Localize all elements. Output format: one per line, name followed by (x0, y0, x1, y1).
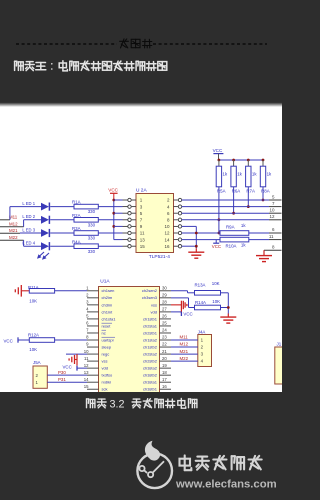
wire R1A to U2A pin 3 (98, 206, 122, 208)
svg-text:R4A: R4A (72, 239, 81, 244)
page-break dashed rule (16, 43, 117, 45)
svg-text:P30: P30 (58, 370, 66, 375)
svg-text:17: 17 (162, 377, 167, 382)
svg-text:J5A: J5A (33, 360, 41, 365)
wire U2A pin 8 to edge (net 12) (182, 219, 269, 221)
svg-text:VCC: VCC (212, 244, 221, 249)
junction VCC col row 1 (112, 199, 115, 202)
wire R11A to pin 1 (55, 290, 87, 292)
svg-text:18: 18 (162, 370, 167, 375)
U1A pin 2 (86, 293, 113, 301)
wire R3A to U2A pin 11 (98, 232, 122, 234)
svg-text:U1A: U1A (100, 278, 110, 284)
svg-text:sleep: sleep (102, 344, 112, 349)
U2A pin 14 (164, 237, 181, 242)
wire U1A pin 23 to J4A-1 (M11) (171, 339, 198, 341)
svg-text:R9A: R9A (226, 224, 235, 229)
wire U2A pin 10 to gnd column (182, 225, 197, 227)
junction R8A line (262, 199, 265, 202)
connector J4A (198, 329, 212, 366)
wire LED2 to R2A (50, 219, 74, 221)
svg-text:R10A: R10A (226, 244, 237, 249)
LED L ED 3 (22, 227, 49, 237)
svg-text:M12: M12 (180, 342, 189, 347)
caption 附录 3.2 速度检测电路 (86, 399, 88, 408)
U1A pin 5 (86, 314, 116, 322)
U2A pin 2 (167, 198, 182, 203)
U2A pin 3 (128, 204, 143, 209)
svg-text:R2A: R2A (72, 213, 81, 218)
U1A pin 30 (142, 286, 171, 294)
svg-text:10K: 10K (29, 347, 37, 352)
svg-text:21: 21 (162, 349, 167, 354)
svg-text:ch3stb2: ch3stb2 (143, 373, 158, 378)
U1A pin 9 (86, 342, 112, 350)
svg-text:ch3im: ch3im (102, 302, 113, 307)
svg-text:24: 24 (162, 328, 167, 333)
ground (net 8) (256, 250, 272, 261)
svg-text:rxdiki: rxdiki (102, 380, 111, 385)
white schematic sheet (0, 0, 1, 1)
junction R5A line (218, 218, 221, 221)
ground (U1A vss left) (69, 354, 77, 365)
U1A pin 1 (86, 286, 114, 294)
svg-text:15: 15 (140, 244, 146, 249)
U1A pin 7 (86, 328, 106, 336)
ground (U1A vss right) (171, 301, 187, 314)
U1A pin 24 (143, 328, 171, 336)
svg-text:1k: 1k (267, 171, 272, 176)
junction VCC col row 9 (112, 225, 115, 228)
elecfans logo mark (137, 441, 172, 488)
resistor R13A (195, 282, 221, 295)
svg-text:330: 330 (88, 209, 96, 214)
resistor R9A (220, 224, 249, 235)
wire R7A down (247, 187, 249, 207)
svg-text:ch1int: ch1int (102, 309, 114, 314)
svg-text:ch2stb2: ch2stb2 (143, 359, 158, 364)
U1A pin 13 (84, 370, 113, 378)
op-to chip U2A TLP521-4 (136, 194, 174, 253)
svg-text:ch1stb1: ch1stb1 (143, 316, 158, 321)
svg-text:VCC: VCC (213, 148, 223, 153)
connector J1A (clipped) (275, 341, 284, 384)
svg-text:M21: M21 (180, 349, 189, 354)
svg-text:R6A: R6A (232, 188, 241, 193)
ground (R13A/R14A) (220, 314, 236, 324)
svg-text:ch3stb1: ch3stb1 (143, 387, 158, 392)
wire R6A down (233, 187, 235, 213)
svg-text:M21: M21 (9, 228, 18, 233)
wire pin 29 to R14A (171, 297, 189, 299)
svg-text:10K: 10K (29, 299, 37, 304)
power VCC (U1A vdd left) (63, 364, 88, 370)
wire J5A-1 to pin 14 (P31) (47, 381, 87, 383)
svg-text:TLP521-4: TLP521-4 (149, 254, 170, 260)
wire U2A pin 12 to R9A (182, 232, 220, 234)
svg-text:330: 330 (88, 222, 96, 227)
junction VCC col row 5 (112, 212, 115, 215)
svg-text:14: 14 (84, 377, 89, 382)
svg-text:19: 19 (162, 363, 167, 368)
wire M12 stub (0, 226, 24, 228)
wire U2A pin 2 to edge (net 5) (182, 199, 269, 201)
svg-text:10K: 10K (212, 281, 220, 286)
junction gnd col pin16 (195, 245, 198, 248)
wire VCC to pin 9 (114, 225, 123, 227)
U1A pin 17 (143, 377, 171, 385)
svg-text:VCC: VCC (108, 188, 118, 193)
svg-text:26: 26 (162, 314, 167, 319)
svg-text:25: 25 (162, 321, 167, 326)
svg-text:10: 10 (164, 224, 170, 229)
resistor R14A (195, 300, 221, 310)
svg-text:330: 330 (88, 236, 96, 241)
svg-text:vss: vss (102, 359, 108, 364)
wire U1A pin 20 to J4A-4 (M22) (171, 360, 198, 362)
svg-text:11: 11 (84, 356, 89, 361)
page-break label 分页符 (121, 39, 125, 48)
ground (U2A outputs) (188, 248, 204, 258)
svg-text:L ED 1: L ED 1 (22, 201, 35, 206)
footer bar (0, 392, 282, 500)
IC U1A (99, 287, 160, 393)
svg-text:1k: 1k (252, 171, 257, 176)
svg-text:R7A: R7A (246, 188, 255, 193)
wire R9A to edge (net 6) (249, 232, 269, 234)
junction R7A line (247, 205, 250, 208)
svg-text:13: 13 (140, 237, 146, 242)
resistor R11A (28, 285, 55, 293)
svg-text:ch3sta1: ch3sta1 (143, 380, 158, 385)
U2A pin 5 (128, 211, 143, 216)
wire VCC bus (219, 159, 263, 161)
U1A pin 22 (143, 342, 171, 350)
svg-text:vdd: vdd (102, 366, 108, 371)
wire pin 10 stub (66, 353, 87, 355)
resistor R6A (231, 160, 240, 193)
svg-text:ch2sen2: ch2sen2 (142, 288, 158, 293)
svg-text:M22: M22 (180, 356, 189, 361)
svg-text:J1: J1 (277, 341, 282, 346)
svg-text:20: 20 (162, 356, 167, 361)
wire R8A down (262, 187, 264, 200)
U1A pin 4 (86, 307, 113, 315)
U1A pin 14 (84, 377, 111, 385)
wire LED1 to R1A (50, 206, 74, 208)
svg-text:10K: 10K (212, 299, 220, 304)
svg-text:R14A: R14A (195, 300, 206, 305)
svg-text:U 2A: U 2A (136, 187, 147, 193)
resistor R2A (72, 213, 98, 222)
U2A pin 9 (128, 224, 143, 229)
svg-text:VCC: VCC (63, 364, 72, 369)
junction R6A line (232, 212, 235, 215)
power VCC (R10A) (212, 240, 221, 249)
svg-text:ch3sta2: ch3sta2 (143, 366, 158, 371)
junction bus R6A (232, 159, 235, 162)
wire M22 dropper (23, 240, 25, 246)
wire U2A pin 6 to edge (net 10) (182, 212, 269, 214)
title 附录三：电路原理图及印制版图 (14, 61, 16, 70)
svg-text:ch2stb1: ch2stb1 (143, 330, 158, 335)
svg-text:15: 15 (84, 384, 89, 389)
svg-text:M12: M12 (9, 222, 18, 227)
svg-text:J4A: J4A (198, 329, 206, 334)
svg-text:ch1sen: ch1sen (102, 288, 115, 293)
resistor R1A (72, 200, 98, 209)
U1A pin 25 (143, 321, 171, 329)
wire M11 stub (0, 219, 10, 221)
U2A pin 7 (128, 218, 143, 223)
U1A pin 21 (143, 349, 171, 357)
wire R5A down (218, 187, 220, 220)
svg-text:vss: vss (151, 302, 157, 307)
svg-text:uartspi: uartspi (102, 337, 114, 342)
svg-text:txdfso: txdfso (102, 373, 113, 378)
U1A pin 15 (84, 384, 108, 392)
U1A pin 12 (84, 363, 108, 371)
wire net 8 (264, 249, 282, 251)
U1A pin 18 (143, 370, 171, 378)
svg-text:27: 27 (162, 307, 167, 312)
svg-text:sck: sck (102, 387, 108, 392)
resistor R8A (260, 160, 269, 193)
svg-text:ch2sta1: ch2sta1 (143, 323, 158, 328)
U1A pin 10 (84, 349, 110, 357)
svg-text:1k: 1k (237, 171, 242, 176)
power VCC (U2A left) (108, 188, 118, 201)
resistor R5A (216, 160, 225, 193)
LED L ED 4 (22, 241, 49, 251)
svg-text:12: 12 (84, 363, 89, 368)
svg-text:VCC: VCC (4, 338, 13, 343)
wire U1A pin 22 to J4A-2 (M12) (171, 346, 198, 348)
junction gnd col pin12 (195, 232, 198, 235)
svg-text:12: 12 (164, 231, 170, 236)
junction bus R5A (218, 159, 221, 162)
svg-text:P31: P31 (58, 377, 66, 382)
svg-text:nc: nc (102, 330, 106, 335)
svg-text:ch1sta2: ch1sta2 (143, 337, 158, 342)
U1A pin 29 (142, 293, 171, 301)
svg-text:reset: reset (102, 323, 112, 328)
U1A pin 19 (143, 363, 171, 371)
power VCC (pull-ups) (213, 148, 224, 160)
U1A pin 3 (86, 300, 113, 308)
wire R10A to edge (net 11) (249, 239, 269, 241)
resistor R7A (246, 160, 255, 193)
wire VCC vertical to pins 1,5,9,13 (113, 200, 115, 240)
resistor R3A (72, 226, 98, 235)
U1A pin 16 (143, 384, 171, 392)
svg-text:1k: 1k (223, 171, 228, 176)
LED L ED 2 (22, 214, 49, 224)
svg-text:R11A: R11A (28, 285, 39, 290)
junction R14A right (227, 306, 230, 309)
svg-text:11: 11 (269, 234, 274, 239)
svg-text:L ED 3: L ED 3 (22, 227, 35, 232)
svg-text:1k: 1k (241, 223, 246, 228)
power VCC (R12A) (4, 337, 30, 343)
wire M22 stub (0, 239, 24, 241)
wire M21 to LED3 (0, 232, 20, 234)
wire J5A-2 to pin 13 (P30) (47, 374, 87, 376)
LED L ED 1 (22, 201, 49, 211)
svg-text:VCC: VCC (183, 311, 192, 316)
U2A pin 16 (164, 244, 181, 249)
wire R13A/R14A join (221, 292, 229, 294)
wire R12A to pin 8 (55, 339, 87, 341)
ground (R11A) (15, 285, 29, 297)
svg-text:M11: M11 (180, 335, 189, 340)
svg-text:L ED 2: L ED 2 (22, 214, 35, 219)
svg-text:10: 10 (269, 208, 275, 213)
junction bus R7A (247, 159, 250, 162)
U1A pin 6 (86, 321, 112, 329)
svg-text:10: 10 (84, 349, 89, 354)
connector J5A (33, 360, 47, 388)
svg-text:28: 28 (162, 300, 167, 305)
LED emission arrows (37, 252, 49, 260)
svg-text:330: 330 (88, 249, 96, 254)
svg-text:11: 11 (140, 231, 145, 236)
svg-text:29: 29 (162, 293, 167, 298)
svg-text:ch1stb2: ch1stb2 (143, 344, 158, 349)
svg-text:R12A: R12A (28, 332, 39, 337)
svg-text:R3A: R3A (72, 226, 81, 231)
resistor R4A (72, 239, 98, 248)
resistor R12A (28, 332, 55, 342)
svg-text:L ED 4: L ED 4 (22, 241, 35, 246)
resistor R10A (220, 237, 249, 248)
U1A pin 20 (143, 356, 171, 364)
svg-text:www.elecfans.com: www.elecfans.com (175, 479, 277, 491)
svg-text:M22: M22 (9, 235, 18, 240)
U2A pin 13 (128, 237, 146, 242)
svg-text:R5A: R5A (217, 188, 226, 193)
power VCC (U1A vdd right) (171, 311, 193, 316)
U1A pin 23 (143, 335, 171, 343)
wire U2A pin 14 to R10A (182, 239, 220, 241)
U2A pin 6 (167, 211, 182, 216)
svg-text:1k: 1k (241, 242, 246, 247)
svg-text:13: 13 (84, 370, 89, 375)
svg-text:16: 16 (164, 244, 170, 249)
svg-text:ch2im: ch2im (102, 295, 113, 300)
svg-text:30: 30 (162, 286, 167, 291)
svg-text:ch1sta1: ch1sta1 (102, 316, 117, 321)
U2A pin 15 (128, 244, 146, 249)
svg-text:23: 23 (162, 335, 167, 340)
wire R4A to U2A pin 15 (98, 245, 122, 247)
U2A pin 4 (167, 204, 182, 209)
U1A pin 26 (143, 314, 171, 322)
svg-text:16: 16 (162, 384, 167, 389)
wire U2A pin 16 to gnd column (182, 245, 197, 247)
elecfans logo text 电子发烧友 (184, 455, 186, 470)
U2A pin 12 (164, 231, 181, 236)
U1A pin 11 (84, 356, 107, 364)
svg-text:vdd: vdd (151, 309, 157, 314)
wire LED4 to R4A (50, 245, 74, 247)
svg-text:ch2sta2: ch2sta2 (143, 351, 158, 356)
wire M12 riser (23, 220, 25, 227)
svg-text:14: 14 (164, 237, 170, 242)
wire VCC to pin 13 (114, 239, 123, 241)
U1A pin 8 (86, 335, 115, 343)
U1A pin 28 (151, 300, 171, 308)
junction R9A left (218, 232, 221, 235)
svg-text:R1A: R1A (72, 200, 81, 205)
wire pin 30 to R13A (171, 290, 188, 292)
svg-text:R13A: R13A (195, 282, 206, 287)
junction bus R8A (262, 159, 265, 162)
svg-text:3.2: 3.2 (110, 399, 125, 411)
wire U1A pin 21 to J4A-3 (M21) (171, 353, 198, 355)
svg-text:regc: regc (102, 351, 110, 356)
U2A pin 11 (128, 231, 145, 236)
U2A pin 1 (128, 198, 143, 203)
wire M11 riser (9, 207, 11, 220)
wire VCC to pin 5 (114, 212, 123, 214)
wire VCC to pin 1 (114, 199, 123, 201)
wire LED3 to R3A (50, 232, 74, 234)
svg-text:22: 22 (162, 342, 167, 347)
svg-text:R8A: R8A (261, 188, 270, 193)
wire R5A net down to R9A (218, 220, 220, 233)
U1A pin 27 (151, 307, 171, 315)
svg-text:ch3sen3: ch3sen3 (142, 295, 158, 300)
U2A pin 8 (167, 218, 182, 223)
U2A pin 10 (164, 224, 181, 229)
wire U2A pin 4 to edge (net 7) (182, 206, 269, 208)
wire R2A to U2A pin 7 (98, 219, 122, 221)
svg-text:12: 12 (269, 214, 275, 219)
